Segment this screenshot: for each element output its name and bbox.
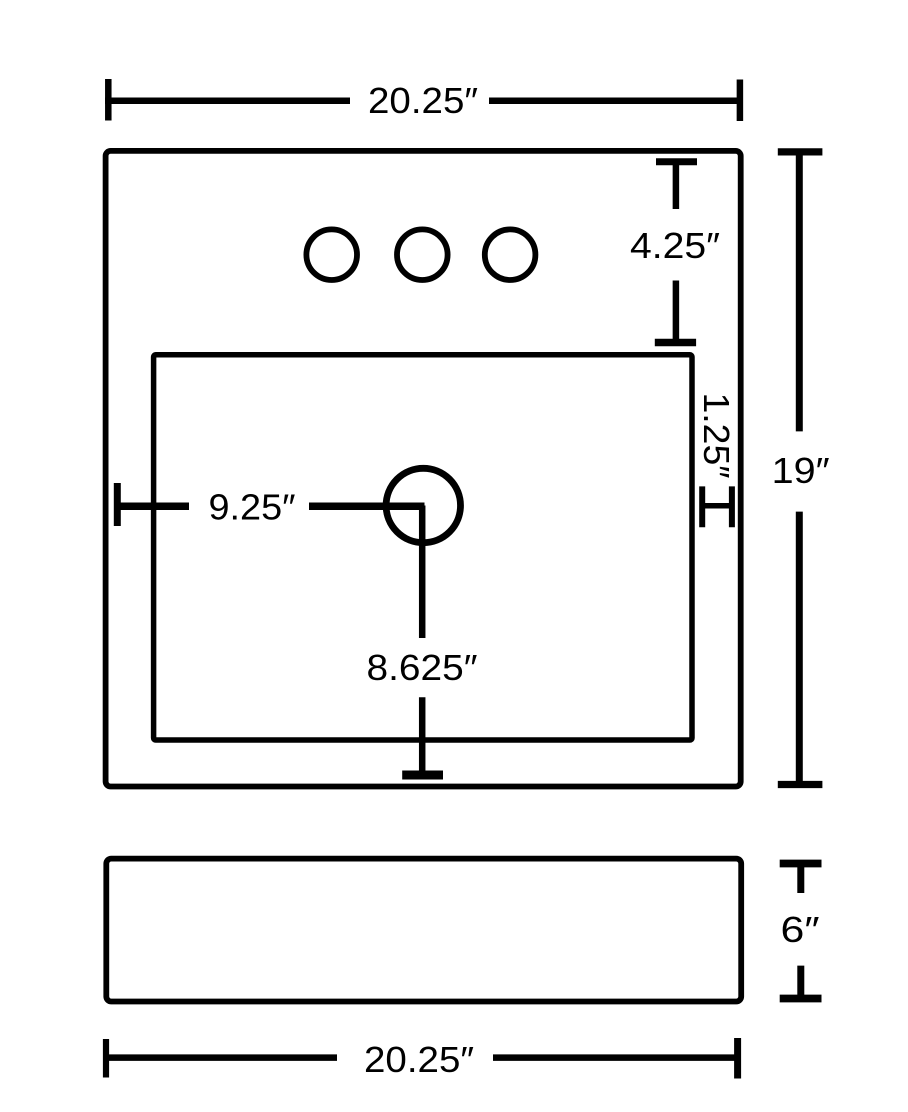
dimension 20.25in top: left line segment — [105, 98, 350, 105]
svg-text:20.25″: 20.25″ — [364, 1039, 474, 1080]
dimension 9.25in: left tick — [114, 483, 121, 526]
dimension 20.25in top: right tick — [737, 80, 744, 122]
svg-text:1.25″: 1.25″ — [696, 393, 737, 479]
dimension 6in: top tick bar — [780, 860, 822, 868]
dimension 1.25in: left tick — [699, 486, 705, 527]
dimension 8.625in: lower stem — [419, 697, 426, 775]
dimension 19in: upper stem — [796, 152, 803, 432]
dimension 6in: upper stem — [797, 864, 804, 894]
svg-text:4.25″: 4.25″ — [630, 225, 720, 266]
dimension 4.25in: lower stem — [673, 281, 680, 343]
dimension 9.25in: right line segment to drain center — [309, 502, 425, 510]
svg-text:19″: 19″ — [772, 450, 830, 491]
faucet hole center — [397, 229, 448, 280]
dimension 6in: lower stem — [797, 966, 804, 999]
basin inner rectangle — [154, 355, 692, 740]
dimension 20.25in bottom: left line segment — [103, 1054, 337, 1061]
dimension 9.25in: left line segment — [114, 502, 189, 510]
dimension 8.625in: upper stem from drain center — [419, 506, 426, 639]
dimension 4.25in: upper stem — [673, 162, 680, 209]
dimension 20.25in bottom: right tick — [734, 1038, 741, 1079]
faucet hole right — [485, 229, 536, 280]
dimension 1.25in: cross line — [702, 503, 732, 509]
dimension 19in: bottom tick bar — [778, 781, 823, 788]
dimension 20.25in top: right line segment — [489, 98, 742, 105]
dimension 19in: top tick bar — [778, 148, 823, 155]
dimension 8.625in: bottom tick bar — [402, 771, 443, 780]
dimension 19in: lower stem — [796, 512, 803, 785]
dimension 20.25in top: left tick — [105, 79, 112, 121]
dimension 20.25in bottom: left tick — [103, 1039, 109, 1078]
dimension 4.25in: bottom tick bar — [655, 339, 696, 347]
svg-text:20.25″: 20.25″ — [368, 80, 478, 121]
dimension 1.25in: right tick — [729, 486, 735, 527]
sink outer rim (top view square) — [106, 151, 741, 787]
svg-text:9.25″: 9.25″ — [209, 487, 296, 528]
dimension 20.25in bottom: right line segment — [493, 1054, 740, 1061]
dimension 4.25in: top tick bar — [656, 158, 697, 165]
svg-text:6″: 6″ — [781, 909, 820, 950]
dimension 6in: bottom tick bar — [780, 995, 822, 1003]
drain hole circle — [386, 468, 460, 542]
svg-text:8.625″: 8.625″ — [367, 647, 478, 688]
faucet hole left — [306, 229, 357, 280]
sink side view rectangle — [106, 859, 741, 1002]
